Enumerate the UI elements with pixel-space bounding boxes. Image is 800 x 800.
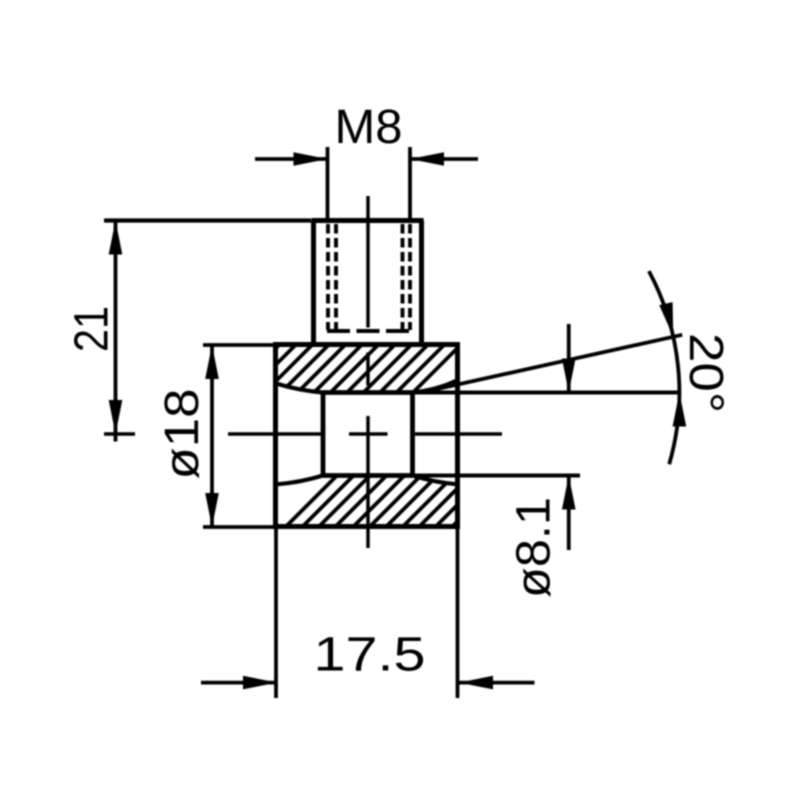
svg-text:ø8.1: ø8.1	[508, 497, 561, 598]
svg-text:21: 21	[66, 306, 119, 352]
svg-text:20°: 20°	[679, 333, 732, 413]
svg-text:17.5: 17.5	[314, 629, 426, 682]
svg-text:ø18: ø18	[156, 389, 209, 480]
svg-text:M8: M8	[335, 101, 403, 154]
